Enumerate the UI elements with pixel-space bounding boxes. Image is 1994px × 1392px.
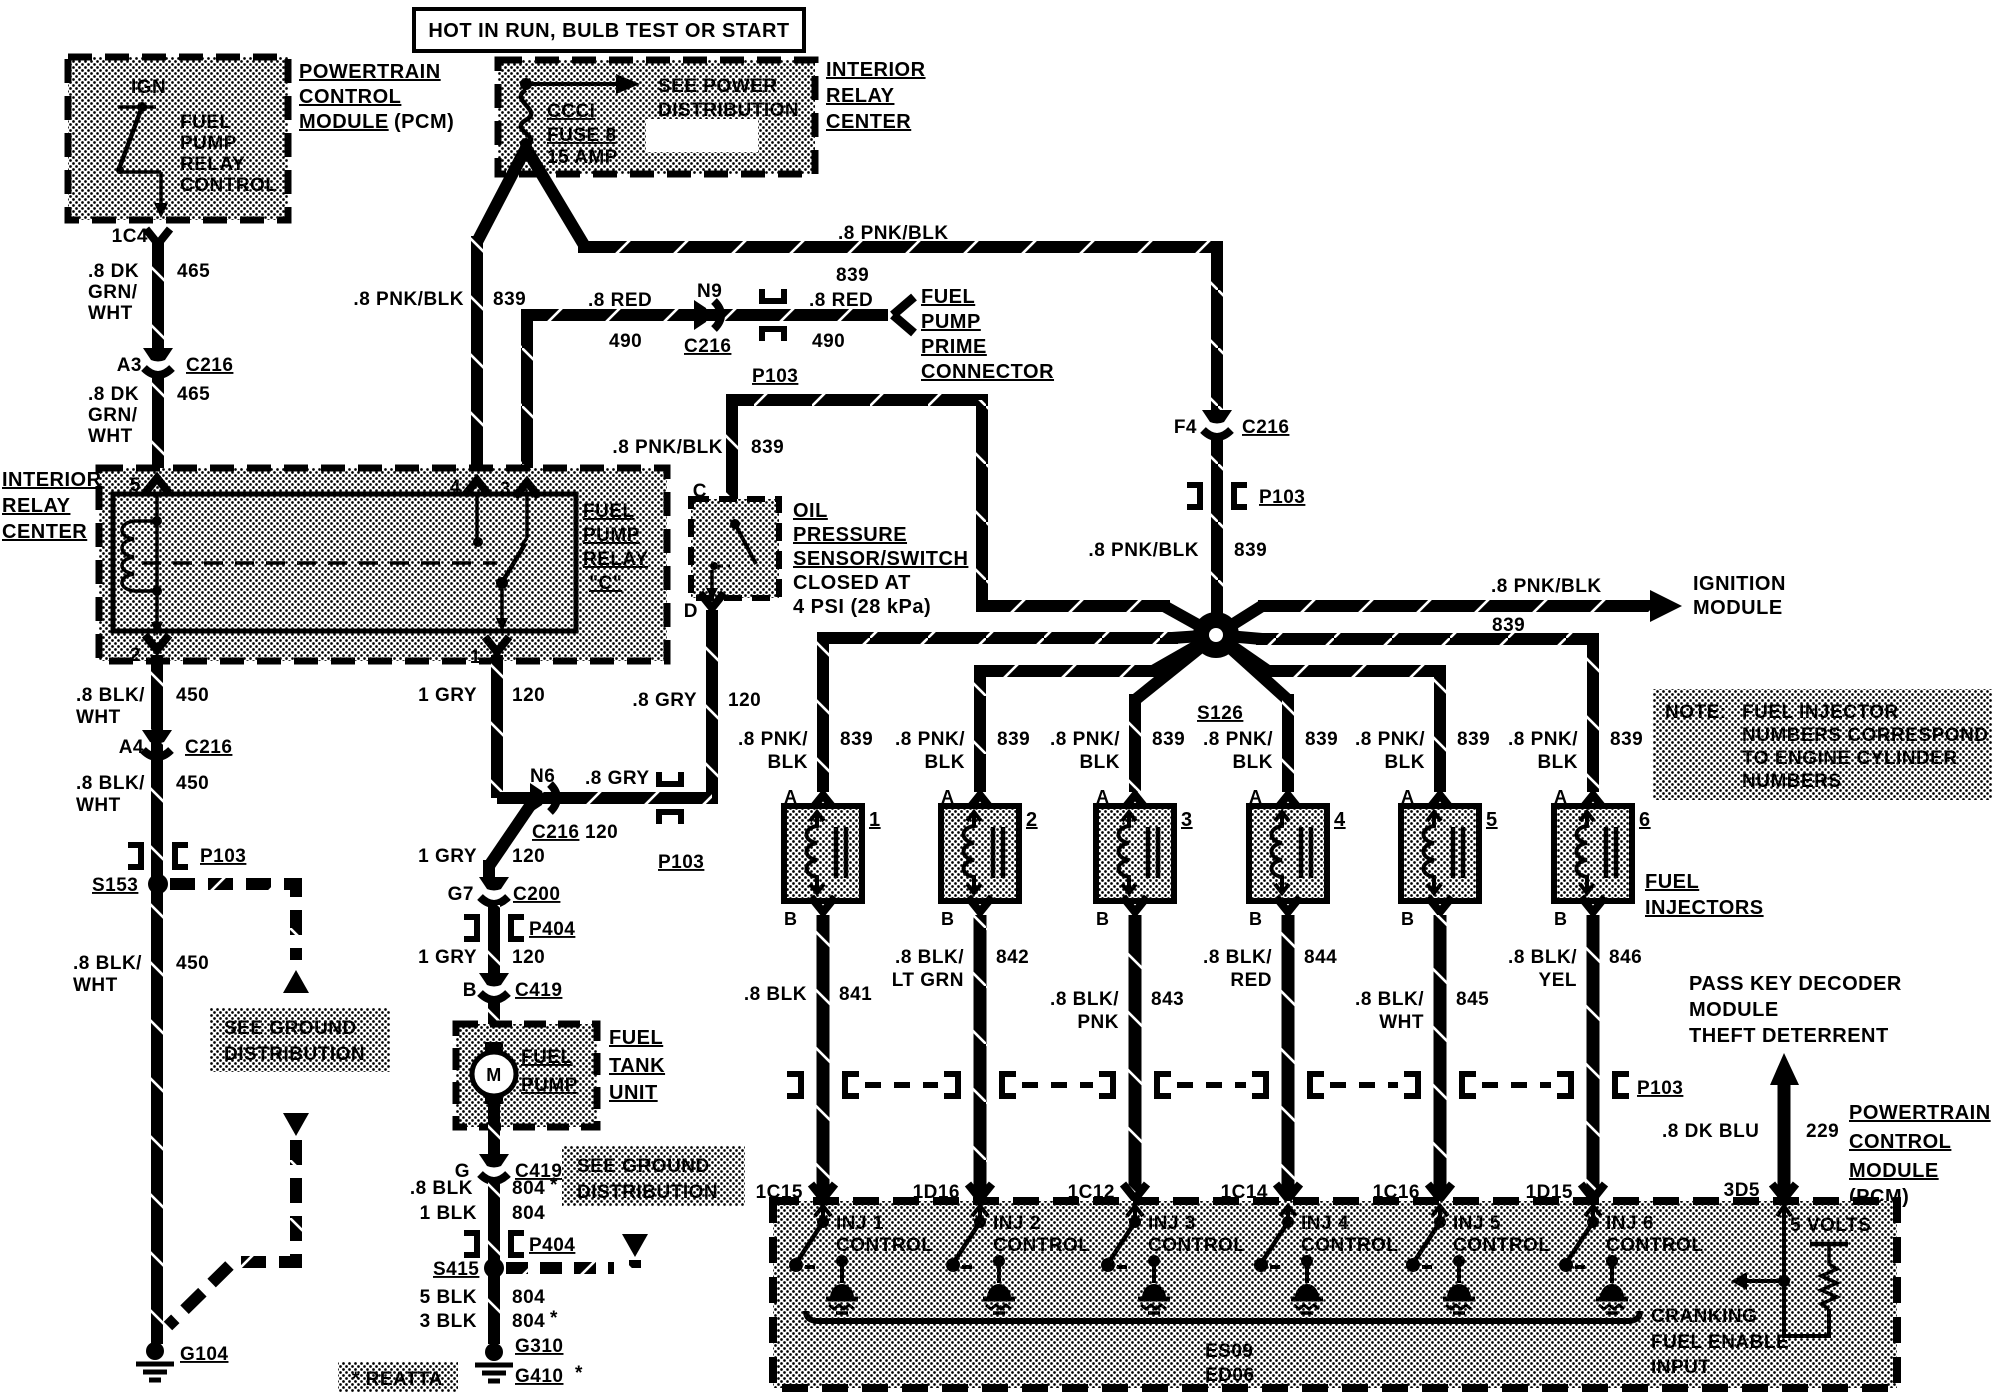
svg-text:.8 BLK/: .8 BLK/ xyxy=(1508,947,1577,968)
relay pin 2 xyxy=(130,635,169,666)
svg-text:.8 PNK/: .8 PNK/ xyxy=(1050,729,1120,750)
svg-text:CONTROL: CONTROL xyxy=(1849,1131,1951,1153)
svg-text:120: 120 xyxy=(512,947,545,968)
svg-text:.8 PNK/BLK: .8 PNK/BLK xyxy=(353,289,464,310)
pin 1C16 xyxy=(1373,1182,1452,1203)
label N9 C216 xyxy=(684,281,731,357)
arrow see power distribution xyxy=(526,74,640,94)
labels .8 PNK/BLK 839 injector feeds xyxy=(738,729,1643,773)
svg-text:*: * xyxy=(550,1308,558,1329)
wire 229 DK BLU to pass key decoder xyxy=(1770,1053,1799,1196)
svg-text:4: 4 xyxy=(450,477,461,498)
label SEE GROUND DISTRIBUTION left xyxy=(210,1008,390,1072)
label .8 PNK/BLK ignition xyxy=(1491,576,1602,597)
wire 490 RED relay pin3 to prime connector xyxy=(527,315,888,470)
svg-text:PUMP: PUMP xyxy=(583,525,640,546)
svg-text:BLK: BLK xyxy=(1232,752,1273,773)
wire 846 injector 6 to PCM xyxy=(1587,915,1600,1196)
svg-text:.8 PNK/BLK: .8 PNK/BLK xyxy=(1088,540,1199,561)
svg-text:INJ 2: INJ 2 xyxy=(993,1213,1041,1234)
svg-text:804: 804 xyxy=(512,1287,545,1308)
wire 839 S126 to injector 2 xyxy=(980,635,1216,792)
label .8 BLK//WHT 845 xyxy=(1355,989,1489,1033)
svg-text:WHT: WHT xyxy=(76,795,121,816)
label 5 VOLTS xyxy=(1790,1215,1871,1236)
svg-text:GRN/: GRN/ xyxy=(88,405,138,426)
label .8 PNK/BLK 839 right vertical xyxy=(1088,540,1267,561)
label FUEL PUMP xyxy=(521,1047,578,1096)
wire dashed branch to G104 xyxy=(168,1140,296,1326)
splice S153 xyxy=(92,874,168,896)
svg-text:RELAY: RELAY xyxy=(180,154,245,175)
svg-text:.8 PNK/: .8 PNK/ xyxy=(738,729,808,750)
svg-text:FUEL: FUEL xyxy=(1645,871,1699,893)
svg-text:450: 450 xyxy=(176,773,209,794)
label REATTA note xyxy=(338,1362,458,1392)
svg-text:MODULE: MODULE xyxy=(1849,1160,1939,1182)
svg-text:P103: P103 xyxy=(752,366,798,387)
svg-text:3 BLK: 3 BLK xyxy=(420,1311,477,1332)
svg-text:MODULE: MODULE xyxy=(299,111,389,133)
svg-text:SEE POWER: SEE POWER xyxy=(658,76,778,97)
relay contact pin4 side xyxy=(473,494,483,547)
svg-text:CENTER: CENTER xyxy=(2,521,87,543)
svg-text:120: 120 xyxy=(512,846,545,867)
label INJ 5 CONTROL xyxy=(1453,1213,1550,1256)
svg-text:.8 PNK/: .8 PNK/ xyxy=(1508,729,1578,750)
label S126 xyxy=(1197,703,1243,724)
fuel injector 2 xyxy=(941,787,1038,929)
label .8 RED 490 right xyxy=(809,290,873,352)
label IGNITION MODULE xyxy=(1693,573,1786,619)
wire dashed branch from S415 xyxy=(506,1260,635,1268)
svg-text:ES09: ES09 xyxy=(1205,1341,1253,1362)
svg-text:CONTROL: CONTROL xyxy=(180,175,277,196)
label .8 GRY near N6 xyxy=(585,768,650,843)
pin 3D5 xyxy=(1724,1180,1796,1201)
svg-text:839: 839 xyxy=(751,437,784,458)
svg-text:IGNITION: IGNITION xyxy=(1693,573,1786,595)
wire 120 GRY to fuel pump xyxy=(489,800,534,881)
svg-text:5: 5 xyxy=(130,475,141,496)
svg-text:C200: C200 xyxy=(513,884,560,905)
wire 839 S126 to injector 3 xyxy=(1135,635,1216,792)
svg-text:.8 DK: .8 DK xyxy=(88,261,139,282)
label 1 GRY 120 third xyxy=(418,947,545,968)
label INJ 6 CONTROL xyxy=(1606,1213,1703,1256)
svg-text:MODULE: MODULE xyxy=(1693,597,1783,619)
svg-text:4: 4 xyxy=(1334,809,1346,831)
svg-text:.8 BLK/: .8 BLK/ xyxy=(1355,989,1424,1010)
fuel pump motor M xyxy=(472,1042,516,1104)
svg-text:C419: C419 xyxy=(515,980,562,1001)
connector C200 pin G7 xyxy=(448,877,561,905)
connector C216 pin F4 xyxy=(1174,410,1290,438)
ground G310 G410 xyxy=(475,1336,583,1387)
svg-text:LT GRN: LT GRN xyxy=(892,970,964,991)
label INJ 1 CONTROL xyxy=(836,1213,933,1256)
svg-text:843: 843 xyxy=(1151,989,1184,1010)
PCM driver INJ 3 xyxy=(1101,1206,1170,1313)
svg-text:CONTROL: CONTROL xyxy=(1301,1235,1398,1256)
svg-text:INJECTORS: INJECTORS xyxy=(1645,897,1764,919)
wire 845 injector 5 to PCM xyxy=(1434,915,1447,1196)
connector P103 on RED wire xyxy=(752,289,798,387)
svg-text:.8 DK: .8 DK xyxy=(88,384,139,405)
svg-text:.8 BLK/: .8 BLK/ xyxy=(895,947,964,968)
wire 465 DK GRN/WHT upper xyxy=(152,240,164,352)
wire 839 S126 to injector 5 xyxy=(1216,635,1440,792)
svg-text:C216: C216 xyxy=(186,355,233,376)
label SEE POWER DISTRIBUTION xyxy=(658,76,799,121)
svg-text:PUMP: PUMP xyxy=(521,1075,578,1096)
label 1 BLK 804 xyxy=(420,1203,546,1224)
label INJ 4 CONTROL xyxy=(1301,1213,1398,1256)
label .8 BLK//YEL 846 xyxy=(1508,947,1642,991)
label .8 DK GRN/WHT 465 upper xyxy=(88,261,210,324)
svg-text:POWERTRAIN: POWERTRAIN xyxy=(299,61,441,83)
connector C216 pin A3 xyxy=(117,348,234,376)
label .8 BLK//PNK 843 xyxy=(1050,989,1184,1033)
oil pressure sensor pin C xyxy=(693,481,744,516)
label .8 RED 490 left xyxy=(588,290,652,352)
connector P103 right vertical xyxy=(1187,485,1305,508)
svg-text:465: 465 xyxy=(177,384,210,405)
svg-text:PRIME: PRIME xyxy=(921,336,987,358)
wire 839 S126 to injector 4 xyxy=(1216,635,1288,792)
relay pin 3 xyxy=(500,479,539,500)
svg-text:CENTER: CENTER xyxy=(826,111,911,133)
svg-text:.8 BLK: .8 BLK xyxy=(410,1178,473,1199)
wire 844 injector 4 to PCM xyxy=(1282,915,1295,1196)
svg-text:3: 3 xyxy=(500,479,511,500)
svg-text:804: 804 xyxy=(512,1203,545,1224)
svg-text:FUEL: FUEL xyxy=(609,1027,663,1049)
switch IGN contact inside PCM xyxy=(116,102,168,218)
svg-text:841: 841 xyxy=(839,984,872,1005)
svg-text:CCCI: CCCI xyxy=(547,101,595,122)
relay actuation dashed line xyxy=(142,561,497,565)
pin 1C15 xyxy=(756,1182,835,1203)
connector C216 pin N6 xyxy=(530,766,579,843)
svg-text:C216: C216 xyxy=(185,737,232,758)
label FUEL PUMP PRIME CONNECTOR xyxy=(921,286,1054,383)
relay coil xyxy=(122,492,163,636)
module PCM bottom box xyxy=(773,1201,1897,1388)
svg-text:465: 465 xyxy=(177,261,210,282)
svg-text:(PCM): (PCM) xyxy=(394,111,454,133)
label 1 GRY 120 first xyxy=(418,685,545,706)
connector C419 pin G xyxy=(455,1154,563,1182)
svg-text:.8 BLK: .8 BLK xyxy=(744,984,807,1005)
svg-text:.8 RED: .8 RED xyxy=(588,290,652,311)
svg-text:839: 839 xyxy=(1305,729,1338,750)
svg-text:PASS KEY DECODER: PASS KEY DECODER xyxy=(1689,973,1902,995)
svg-text:FUSE 8: FUSE 8 xyxy=(547,125,617,146)
svg-text:839: 839 xyxy=(1234,540,1267,561)
wire 120 GRY relay pin1 down xyxy=(491,655,503,798)
wire 120 GRY below C200 xyxy=(488,905,500,977)
svg-text:.8 RED: .8 RED xyxy=(809,290,873,311)
label .8 PNK/BLK 839 oil feed xyxy=(612,437,784,458)
svg-text:INPUT: INPUT xyxy=(1651,1357,1711,1378)
svg-text:NUMBERS CORRESPOND: NUMBERS CORRESPOND xyxy=(1742,725,1989,746)
wire 839 S126 to ignition module xyxy=(1216,590,1682,635)
svg-text:B: B xyxy=(1554,909,1568,929)
svg-text:GRN/: GRN/ xyxy=(88,282,138,303)
svg-text:INTERIOR: INTERIOR xyxy=(2,469,102,491)
svg-text:PNK: PNK xyxy=(1077,1012,1119,1033)
svg-text:1: 1 xyxy=(869,809,881,831)
svg-text:.8 DK BLU: .8 DK BLU xyxy=(1662,1121,1759,1142)
label SEE GROUND DISTRIBUTION right xyxy=(562,1146,745,1206)
label .8 GRY 120 D wire xyxy=(632,690,761,711)
svg-text:B: B xyxy=(463,980,477,1001)
svg-text:NOTE:: NOTE: xyxy=(1665,702,1727,723)
svg-text:TO ENGINE CYLINDER: TO ENGINE CYLINDER xyxy=(1742,748,1958,769)
svg-text:.8 PNK/: .8 PNK/ xyxy=(1203,729,1273,750)
svg-text:CONNECTOR: CONNECTOR xyxy=(921,361,1054,383)
svg-text:DISTRIBUTION: DISTRIBUTION xyxy=(224,1044,365,1065)
svg-text:B: B xyxy=(941,909,955,929)
svg-text:WHT: WHT xyxy=(76,707,121,728)
svg-text:YEL: YEL xyxy=(1539,970,1577,991)
svg-text:S153: S153 xyxy=(92,875,138,896)
connector P404 upper xyxy=(464,917,575,940)
label 3 BLK 804 star xyxy=(420,1308,558,1332)
svg-text:B: B xyxy=(1401,909,1415,929)
svg-text:G7: G7 xyxy=(448,884,474,905)
svg-text:P103: P103 xyxy=(1637,1078,1683,1099)
svg-text:PUMP: PUMP xyxy=(921,311,981,333)
svg-text:INJ 4: INJ 4 xyxy=(1301,1213,1349,1234)
wire 839 fuse to relay pin4 xyxy=(477,148,526,470)
svg-text:120: 120 xyxy=(512,685,545,706)
svg-text:IGN: IGN xyxy=(131,77,166,98)
svg-text:B: B xyxy=(1096,909,1110,929)
svg-text:INJ 3: INJ 3 xyxy=(1148,1213,1196,1234)
wire dashed branch S153 to ground distribution xyxy=(170,884,296,960)
wire 450 BLK/WHT relay pin2 down xyxy=(151,655,163,880)
svg-text:RELAY: RELAY xyxy=(2,495,71,517)
oil pressure sensor switch box xyxy=(691,499,779,598)
svg-text:PRESSURE: PRESSURE xyxy=(793,524,907,546)
pin 1C14 xyxy=(1221,1182,1300,1203)
svg-text:.8 BLK/: .8 BLK/ xyxy=(73,953,142,974)
label .8 BLK 804 star xyxy=(410,1175,558,1199)
PCM 5 volts supply xyxy=(1731,1206,1848,1336)
fuel injector 1 xyxy=(784,787,881,929)
svg-text:.8 GRY: .8 GRY xyxy=(632,690,697,711)
svg-text:P404: P404 xyxy=(529,919,575,940)
interior relay center fuse box xyxy=(498,60,815,174)
svg-text:BLK: BLK xyxy=(924,752,965,773)
wire 120 GRY horizontal run to oil switch D xyxy=(497,610,712,798)
svg-text:1C4: 1C4 xyxy=(112,226,148,247)
svg-text:.8 PNK/: .8 PNK/ xyxy=(895,729,965,750)
note box fuel injector numbers xyxy=(1653,689,1992,800)
wire 804 BLK below pump xyxy=(488,1104,500,1158)
svg-text:RELAY: RELAY xyxy=(583,549,648,570)
svg-text:842: 842 xyxy=(996,947,1029,968)
label .8 PNK/BLK 839 left vertical xyxy=(353,289,526,310)
pin 1C12 xyxy=(1068,1182,1147,1203)
svg-text:B: B xyxy=(784,909,798,929)
wire 839 F4 to S126 xyxy=(1211,438,1223,635)
svg-text:NUMBERS: NUMBERS xyxy=(1742,771,1842,792)
label .8 DK GRN/WHT 465 lower xyxy=(88,384,210,447)
pin 1D16 xyxy=(913,1182,992,1203)
svg-text:3: 3 xyxy=(1181,809,1193,831)
svg-text:804: 804 xyxy=(512,1311,545,1332)
svg-text:BLK: BLK xyxy=(1537,752,1578,773)
label .8 BLK/WHT 450 second xyxy=(76,773,209,816)
relay pin 1 xyxy=(470,637,509,668)
svg-text:1 GRY: 1 GRY xyxy=(418,685,477,706)
wire 843 injector 3 to PCM xyxy=(1129,915,1142,1196)
wire 842 injector 2 to PCM xyxy=(974,915,987,1196)
PCM cranking fuel enable bus xyxy=(806,1311,1640,1321)
label INTERIOR RELAY CENTER top xyxy=(826,59,926,133)
PCM driver INJ 5 xyxy=(1406,1206,1475,1313)
svg-text:G410: G410 xyxy=(515,1366,563,1387)
svg-text:.8 PNK/: .8 PNK/ xyxy=(1355,729,1425,750)
svg-text:.8 PNK/BLK: .8 PNK/BLK xyxy=(838,223,949,244)
PCM driver INJ 6 xyxy=(1559,1206,1628,1313)
wire 839 oil sensor feed xyxy=(732,400,1216,635)
label .8 BLK/WHT 450 first xyxy=(76,685,209,728)
svg-text:839: 839 xyxy=(1457,729,1490,750)
svg-text:N6: N6 xyxy=(530,766,555,787)
svg-text:1 BLK: 1 BLK xyxy=(420,1203,477,1224)
svg-text:A4: A4 xyxy=(119,737,144,758)
ground G104 xyxy=(136,1342,228,1380)
svg-text:1: 1 xyxy=(470,647,481,668)
svg-text:C216: C216 xyxy=(684,336,731,357)
label POWERTRAIN CONTROL MODULE (PCM) bottom xyxy=(1849,1102,1991,1208)
svg-text:CONTROL: CONTROL xyxy=(299,86,401,108)
label .8 BLK 841 xyxy=(744,984,872,1005)
wire 839 S126 to injector 1 xyxy=(823,635,1216,792)
label 5 BLK 804 xyxy=(420,1287,546,1308)
svg-text:P103: P103 xyxy=(1259,487,1305,508)
wire 120 GRY into fuel tank unit xyxy=(488,1001,500,1044)
svg-text:* REATTA: * REATTA xyxy=(352,1369,443,1390)
oil pressure switch contacts xyxy=(706,519,756,600)
label .8 BLK/WHT 450 third xyxy=(73,953,209,996)
wire 804 BLK to S415 xyxy=(488,1182,500,1344)
label POWERTRAIN CONTROL MODULE (PCM) top xyxy=(299,61,454,133)
svg-text:839: 839 xyxy=(493,289,526,310)
svg-text:2: 2 xyxy=(1026,809,1038,831)
connector P103 row across injector wires xyxy=(787,1074,1683,1099)
pin 1C4 xyxy=(112,226,170,247)
label PASS KEY DECODER MODULE THEFT DETERRENT xyxy=(1689,973,1902,1047)
svg-text:FUEL: FUEL xyxy=(180,112,232,133)
label INTERIOR RELAY CENTER left xyxy=(2,469,102,543)
svg-text:5 BLK: 5 BLK xyxy=(420,1287,477,1308)
svg-text:WHT: WHT xyxy=(1379,1012,1424,1033)
label .8 BLK//RED 844 xyxy=(1203,947,1337,991)
svg-text:839: 839 xyxy=(1492,615,1525,636)
svg-text:804: 804 xyxy=(512,1178,545,1199)
label .8 DK BLU 229 xyxy=(1662,1121,1839,1142)
svg-text:INJ 5: INJ 5 xyxy=(1453,1213,1501,1234)
wire 841 injector 1 to PCM xyxy=(817,915,830,1196)
svg-text:P404: P404 xyxy=(529,1235,575,1256)
svg-text:F4: F4 xyxy=(1174,417,1197,438)
svg-text:.8 PNK/BLK: .8 PNK/BLK xyxy=(1491,576,1602,597)
label OIL PRESSURE SENSOR SWITCH xyxy=(793,500,968,618)
connector P103 on GRY run xyxy=(658,772,704,873)
svg-text:.8 BLK/: .8 BLK/ xyxy=(76,685,145,706)
svg-text:DISTRIBUTION: DISTRIBUTION xyxy=(658,100,799,121)
svg-text:TANK: TANK xyxy=(609,1055,665,1077)
splice S415 xyxy=(433,1258,504,1280)
svg-text:450: 450 xyxy=(176,685,209,706)
interior relay center box xyxy=(99,468,667,661)
label .8 BLK//LT GRN 842 xyxy=(892,947,1030,991)
svg-text:839: 839 xyxy=(840,729,873,750)
svg-text:839: 839 xyxy=(1610,729,1643,750)
fuel pump relay inner box xyxy=(113,494,576,631)
connector C216 pin A4 xyxy=(119,730,233,758)
label FUEL TANK UNIT xyxy=(609,1027,665,1104)
svg-text:.8 BLK/: .8 BLK/ xyxy=(76,773,145,794)
svg-text:INJ 1: INJ 1 xyxy=(836,1213,884,1234)
svg-text:229: 229 xyxy=(1806,1121,1839,1142)
svg-text:2: 2 xyxy=(130,645,141,666)
svg-text:5 VOLTS: 5 VOLTS xyxy=(1790,1215,1871,1236)
terminal fuel pump prime connector xyxy=(893,297,914,333)
fuel injector 6 xyxy=(1554,787,1651,929)
wire 839 fuse to S126 top run xyxy=(526,148,1217,413)
svg-text:RELAY: RELAY xyxy=(826,85,895,107)
fuel injector 3 xyxy=(1096,787,1193,929)
svg-text:844: 844 xyxy=(1304,947,1337,968)
relay contact pin3 side xyxy=(521,494,527,546)
PCM driver INJ 1 xyxy=(789,1206,858,1313)
label INJ 2 CONTROL xyxy=(993,1213,1090,1256)
connector C216 pin N9 inline xyxy=(694,300,721,330)
svg-text:FUEL: FUEL xyxy=(921,286,975,308)
fuel injector 4 xyxy=(1249,787,1346,929)
svg-text:INTERIOR: INTERIOR xyxy=(826,59,926,81)
svg-text:WHT: WHT xyxy=(88,426,133,447)
svg-text:S415: S415 xyxy=(433,1259,479,1280)
svg-text:1 GRY: 1 GRY xyxy=(418,846,477,867)
svg-text:839: 839 xyxy=(836,265,869,286)
arrow from ground distribution lower xyxy=(283,1113,309,1136)
power source banner HOT IN RUN BULB TEST OR START xyxy=(414,9,804,51)
svg-text:CONTROL: CONTROL xyxy=(1606,1235,1703,1256)
svg-text:WHT: WHT xyxy=(88,303,133,324)
svg-text:CLOSED AT: CLOSED AT xyxy=(793,572,911,594)
svg-text:SENSOR/SWITCH: SENSOR/SWITCH xyxy=(793,548,968,570)
relay pin 5 xyxy=(130,475,169,496)
svg-text:CONTROL: CONTROL xyxy=(993,1235,1090,1256)
svg-text:HOT IN RUN, BULB TEST OR START: HOT IN RUN, BULB TEST OR START xyxy=(428,20,789,42)
label .8 PNK/BLK 839 top run xyxy=(836,223,949,286)
label IGN xyxy=(131,77,166,98)
svg-text:*: * xyxy=(550,1175,558,1196)
svg-text:120: 120 xyxy=(585,822,618,843)
oil pressure sensor pin D xyxy=(684,593,724,622)
svg-text:BLK: BLK xyxy=(767,752,808,773)
svg-text:N9: N9 xyxy=(697,281,722,302)
svg-text:ED06: ED06 xyxy=(1205,1365,1255,1386)
module PCM fuel pump relay control box xyxy=(68,57,288,220)
